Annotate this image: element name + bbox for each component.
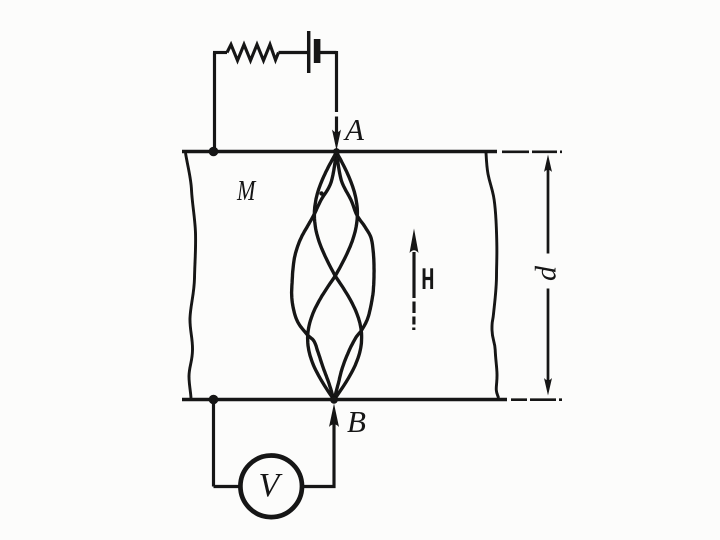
wire to voltmeter [214, 485, 242, 488]
arrowhead H up [410, 229, 419, 254]
svg-text:B: B [347, 404, 366, 439]
resistor R [227, 45, 279, 61]
dimension arrowhead top [544, 155, 552, 173]
electron trajectory S-curve right [308, 152, 358, 400]
wire resistor to battery [279, 51, 308, 54]
bottom plate line broken right part [511, 398, 562, 401]
battery short thick electrode [314, 39, 321, 63]
junction blob at B [330, 396, 338, 404]
label M [236, 174, 257, 207]
junction dot bottom left [209, 395, 219, 405]
electron trajectory outer left arc [292, 152, 337, 400]
wire top horizontal to resistor [213, 51, 227, 54]
junction dot top left [209, 147, 219, 157]
wire right vertical down toward A [335, 51, 338, 140]
dimension arrowhead bottom [544, 378, 552, 396]
wire battery to right corner [320, 51, 337, 54]
sample M right wavy edge [486, 153, 499, 399]
arrowhead down at A [332, 130, 341, 151]
wire bottom left vertical [212, 400, 215, 487]
svg-text:M: M [236, 174, 257, 207]
label H (condensed bold, drawn) [423, 268, 434, 289]
wire voltmeter to B vertical [302, 413, 334, 487]
electron trajectory outer right arc [334, 152, 374, 400]
top plate line broken right part [502, 150, 562, 153]
top plate line solid part [182, 150, 497, 153]
bottom plate line solid part [182, 398, 507, 401]
dimension line d vertical [547, 169, 550, 381]
battery long thin electrode [307, 31, 310, 73]
electron trajectory S-curve left [314, 152, 361, 400]
sample M left wavy edge [186, 153, 196, 398]
svg-text:A: A [343, 112, 365, 147]
svg-text:V: V [259, 467, 284, 504]
ink blob speck on trajectory [319, 191, 323, 195]
svg-text:d: d [530, 265, 563, 281]
node B arrowhead up [329, 404, 339, 428]
junction blob at A [333, 148, 340, 155]
arrow H field line [412, 252, 415, 330]
wire left vertical of top circuit [213, 53, 216, 151]
voltmeter V circle [240, 456, 302, 518]
